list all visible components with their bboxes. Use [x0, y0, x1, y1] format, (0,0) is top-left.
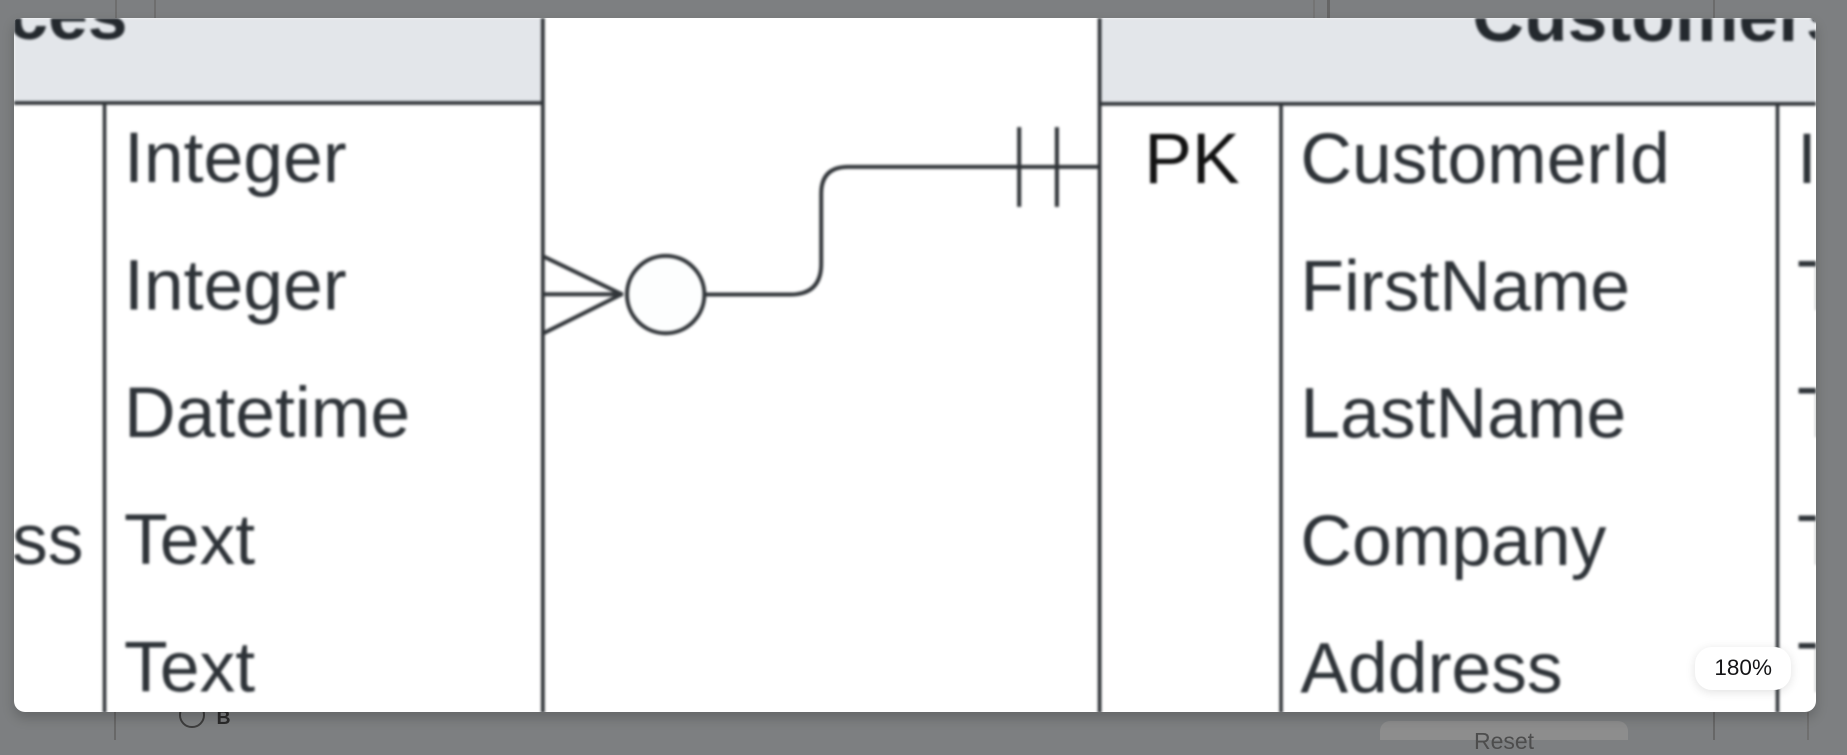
svg-text:Text: Text: [124, 500, 255, 580]
Invoices name/type divider: [103, 102, 107, 740]
Customers header bottom border: [1100, 101, 1847, 105]
Customers name/type divider: [1776, 103, 1780, 740]
relationship wire: [704, 166, 1100, 294]
svg-text:Invoices: Invoices: [14, 18, 128, 55]
Reset button (dimmed): [1380, 721, 1628, 740]
Customers left edge: [1098, 0, 1102, 740]
bottom band faint vertical line 3: [1807, 712, 1809, 740]
crow's foot prong bottom: [543, 293, 623, 333]
svg-text:Integer: Integer: [124, 245, 347, 325]
svg-text:Text: Text: [1797, 246, 1816, 326]
svg-text:Text: Text: [1797, 628, 1816, 708]
crow's foot prong middle: [543, 292, 623, 296]
svg-text:Customers: Customers: [1472, 18, 1815, 57]
Reset button label: [1380, 728, 1628, 755]
Invoices header background: [0, 0, 543, 102]
svg-text:PK: PK: [1144, 118, 1239, 198]
zero-or-many circle: [627, 255, 704, 332]
Invoices right edge: [541, 0, 545, 740]
Customers header background: [1100, 0, 1847, 103]
svg-text:Text: Text: [1797, 501, 1816, 581]
svg-text:Company: Company: [1300, 501, 1606, 581]
radio label B: [217, 707, 247, 740]
svg-text:Integer: Integer: [1797, 118, 1816, 198]
top band faint vertical line 5: [1713, 0, 1715, 18]
svg-text:FirstName: FirstName: [1300, 246, 1630, 326]
svg-text:Integer: Integer: [124, 118, 347, 198]
top band faint vertical line 2: [154, 0, 156, 18]
radio button B circle: [179, 702, 205, 728]
one-tick 2: [1055, 127, 1059, 207]
top band faint vertical line 1: [115, 0, 117, 18]
svg-text:CustomerId: CustomerId: [1300, 118, 1670, 198]
Invoices header bottom border: [0, 101, 543, 105]
Customers key/name divider: [1279, 103, 1283, 740]
svg-text:Text: Text: [1797, 373, 1816, 453]
one-tick 1: [1017, 127, 1021, 207]
crow's foot prong top: [543, 256, 623, 295]
svg-text:BillingAddress: BillingAddress: [14, 500, 84, 580]
top band faint vertical line 3: [1313, 0, 1315, 18]
svg-text:Datetime: Datetime: [124, 372, 410, 452]
svg-text:LastName: LastName: [1300, 373, 1626, 453]
svg-text:Text: Text: [124, 627, 255, 707]
zoom level chip 180%: [1695, 647, 1791, 690]
top band faint vertical line 4: [1327, 0, 1330, 18]
bottom band faint vertical line 1: [114, 712, 116, 740]
bottom band faint vertical line 2: [1713, 712, 1715, 740]
svg-text:Address: Address: [1300, 628, 1562, 708]
